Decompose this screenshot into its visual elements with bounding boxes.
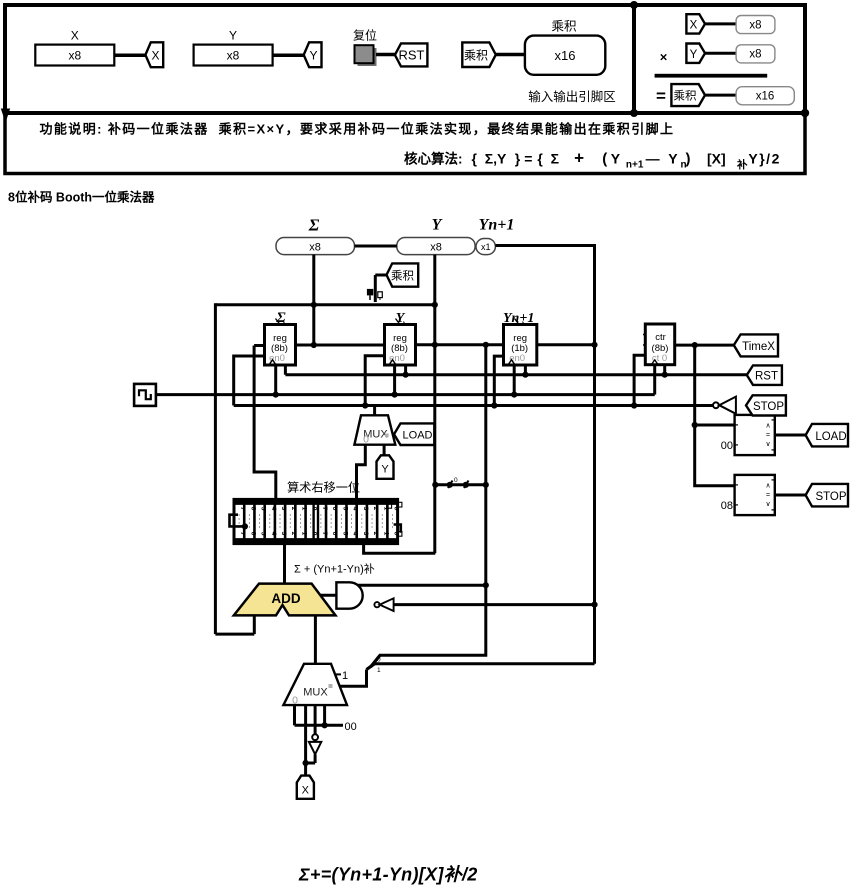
svg-text:1: 1 <box>300 507 307 511</box>
svg-text:ADD: ADD <box>271 591 300 606</box>
svg-text:[X]: [X] <box>707 151 726 167</box>
svg-text:Σ+=(Yn+1-Yn)[X]补/2: Σ+=(Yn+1-Yn)[X]补/2 <box>298 865 478 885</box>
svg-text:x8: x8 <box>309 242 321 254</box>
svg-text:(: ( <box>602 151 607 168</box>
svg-text:5: 5 <box>341 507 348 511</box>
svg-text:0: 0 <box>292 695 298 707</box>
svg-text:7: 7 <box>321 532 328 536</box>
svg-text:5: 5 <box>341 532 348 536</box>
svg-text:0: 0 <box>311 532 318 536</box>
svg-text:7: 7 <box>239 532 246 536</box>
svg-text:Y: Y <box>432 217 443 234</box>
svg-text:X: X <box>690 20 698 32</box>
svg-text:Σ + (Yn+1-Yn)补: Σ + (Yn+1-Yn)补 <box>294 563 375 576</box>
svg-text:Yn+1: Yn+1 <box>503 311 534 326</box>
svg-text:乘积: 乘积 <box>674 89 697 103</box>
svg-text:X: X <box>151 49 159 63</box>
svg-text:6: 6 <box>249 507 256 511</box>
svg-text:算术右移一位: 算术右移一位 <box>287 480 360 495</box>
svg-text:0: 0 <box>392 532 399 536</box>
svg-text:6: 6 <box>249 532 256 536</box>
svg-text:乘积: 乘积 <box>391 269 414 283</box>
svg-text:∧: ∧ <box>765 482 770 489</box>
svg-text:x8: x8 <box>68 49 81 63</box>
svg-text:x16: x16 <box>555 48 576 63</box>
svg-text:7: 7 <box>239 507 246 511</box>
svg-text:4: 4 <box>270 532 277 536</box>
svg-text:Yn+1: Yn+1 <box>479 217 515 234</box>
svg-text:08: 08 <box>721 500 733 512</box>
svg-text:TimeX: TimeX <box>742 341 775 353</box>
svg-text:2: 2 <box>290 507 297 511</box>
svg-text:Σ: Σ <box>308 216 320 235</box>
svg-text:x1: x1 <box>481 242 491 252</box>
svg-text:+: + <box>574 149 584 168</box>
svg-text:Y: Y <box>381 464 389 476</box>
svg-text:Y: Y <box>690 49 698 61</box>
svg-text:乘积: 乘积 <box>551 20 576 34</box>
svg-text:0: 0 <box>377 657 381 664</box>
svg-text:4: 4 <box>270 507 277 511</box>
svg-text:Σ,Y: Σ,Y <box>485 151 507 167</box>
svg-text:x8: x8 <box>430 242 442 254</box>
svg-text:3: 3 <box>280 532 287 536</box>
svg-text:Y: Y <box>309 49 317 63</box>
svg-text:复位: 复位 <box>353 28 377 43</box>
svg-text:=: = <box>656 87 666 106</box>
svg-text:MUX: MUX <box>303 687 328 699</box>
svg-text:0: 0 <box>311 507 318 511</box>
svg-text:7: 7 <box>321 507 328 511</box>
svg-text:0: 0 <box>454 477 458 484</box>
svg-text:{: { <box>537 151 543 167</box>
svg-text:Σ: Σ <box>275 310 286 326</box>
svg-text:ctr: ctr <box>655 332 666 343</box>
svg-text:00: 00 <box>721 440 733 452</box>
svg-text:Y: Y <box>668 151 678 167</box>
svg-text:Y: Y <box>229 29 237 43</box>
svg-text:5: 5 <box>260 507 267 511</box>
svg-text:Y}/2: Y}/2 <box>748 151 780 167</box>
svg-text:STOP: STOP <box>753 401 784 413</box>
svg-text:2: 2 <box>290 532 297 536</box>
svg-text:6: 6 <box>331 532 338 536</box>
svg-text:5: 5 <box>260 532 267 536</box>
svg-text:×: × <box>660 50 668 65</box>
svg-text:=: = <box>524 151 532 167</box>
svg-text:=: = <box>766 432 770 439</box>
svg-text:X: X <box>302 785 310 797</box>
svg-text:功能说明: 补码一位乘法器 乘积=X×Y，要求采用补码一位: 功能说明: 补码一位乘法器 乘积=X×Y，要求采用补码一位乘法实现，最终结果能输… <box>40 122 675 137</box>
svg-text:∧: ∧ <box>765 422 770 429</box>
svg-text:6: 6 <box>331 507 338 511</box>
svg-text:STOP: STOP <box>815 491 846 503</box>
svg-text:x16: x16 <box>756 91 775 103</box>
svg-text:4: 4 <box>352 532 359 536</box>
svg-text:输入输出引脚区: 输入输出引脚区 <box>528 89 616 104</box>
svg-text:补: 补 <box>736 158 748 171</box>
svg-text:0: 0 <box>363 434 369 446</box>
svg-text:LOAD: LOAD <box>403 429 433 441</box>
svg-text:Σ: Σ <box>551 151 559 167</box>
svg-text:—: — <box>646 151 660 167</box>
svg-text:1: 1 <box>300 532 307 536</box>
svg-text:8位补码 Booth一位乘法器: 8位补码 Booth一位乘法器 <box>8 190 155 205</box>
svg-text:00: 00 <box>345 721 357 733</box>
svg-text:2: 2 <box>372 532 379 536</box>
svg-text:3: 3 <box>362 507 369 511</box>
svg-text:x8: x8 <box>749 19 761 31</box>
svg-text:2: 2 <box>372 507 379 511</box>
svg-text:1: 1 <box>382 532 389 536</box>
svg-text:}: } <box>515 151 521 167</box>
svg-text:1: 1 <box>342 670 348 682</box>
svg-text:4: 4 <box>352 507 359 511</box>
svg-text:∨: ∨ <box>765 441 770 448</box>
svg-text:LOAD: LOAD <box>815 431 846 443</box>
svg-text:∨: ∨ <box>765 501 770 508</box>
svg-text:=: = <box>766 492 770 499</box>
svg-text:核心算法:: 核心算法: <box>404 151 463 167</box>
svg-text:X: X <box>71 29 79 43</box>
svg-text:1: 1 <box>377 667 381 674</box>
svg-text:x8: x8 <box>749 49 761 61</box>
svg-text:Y: Y <box>396 311 406 326</box>
svg-text:Y: Y <box>611 151 621 167</box>
svg-text:乘积: 乘积 <box>464 49 488 63</box>
svg-text:3: 3 <box>362 532 369 536</box>
svg-text:): ) <box>686 151 691 168</box>
svg-text:RST: RST <box>399 48 425 63</box>
svg-text:RST: RST <box>755 371 778 383</box>
svg-text:n+1: n+1 <box>626 160 644 171</box>
svg-text:3: 3 <box>280 507 287 511</box>
svg-text:{: { <box>472 151 478 167</box>
svg-text:x8: x8 <box>227 49 240 63</box>
